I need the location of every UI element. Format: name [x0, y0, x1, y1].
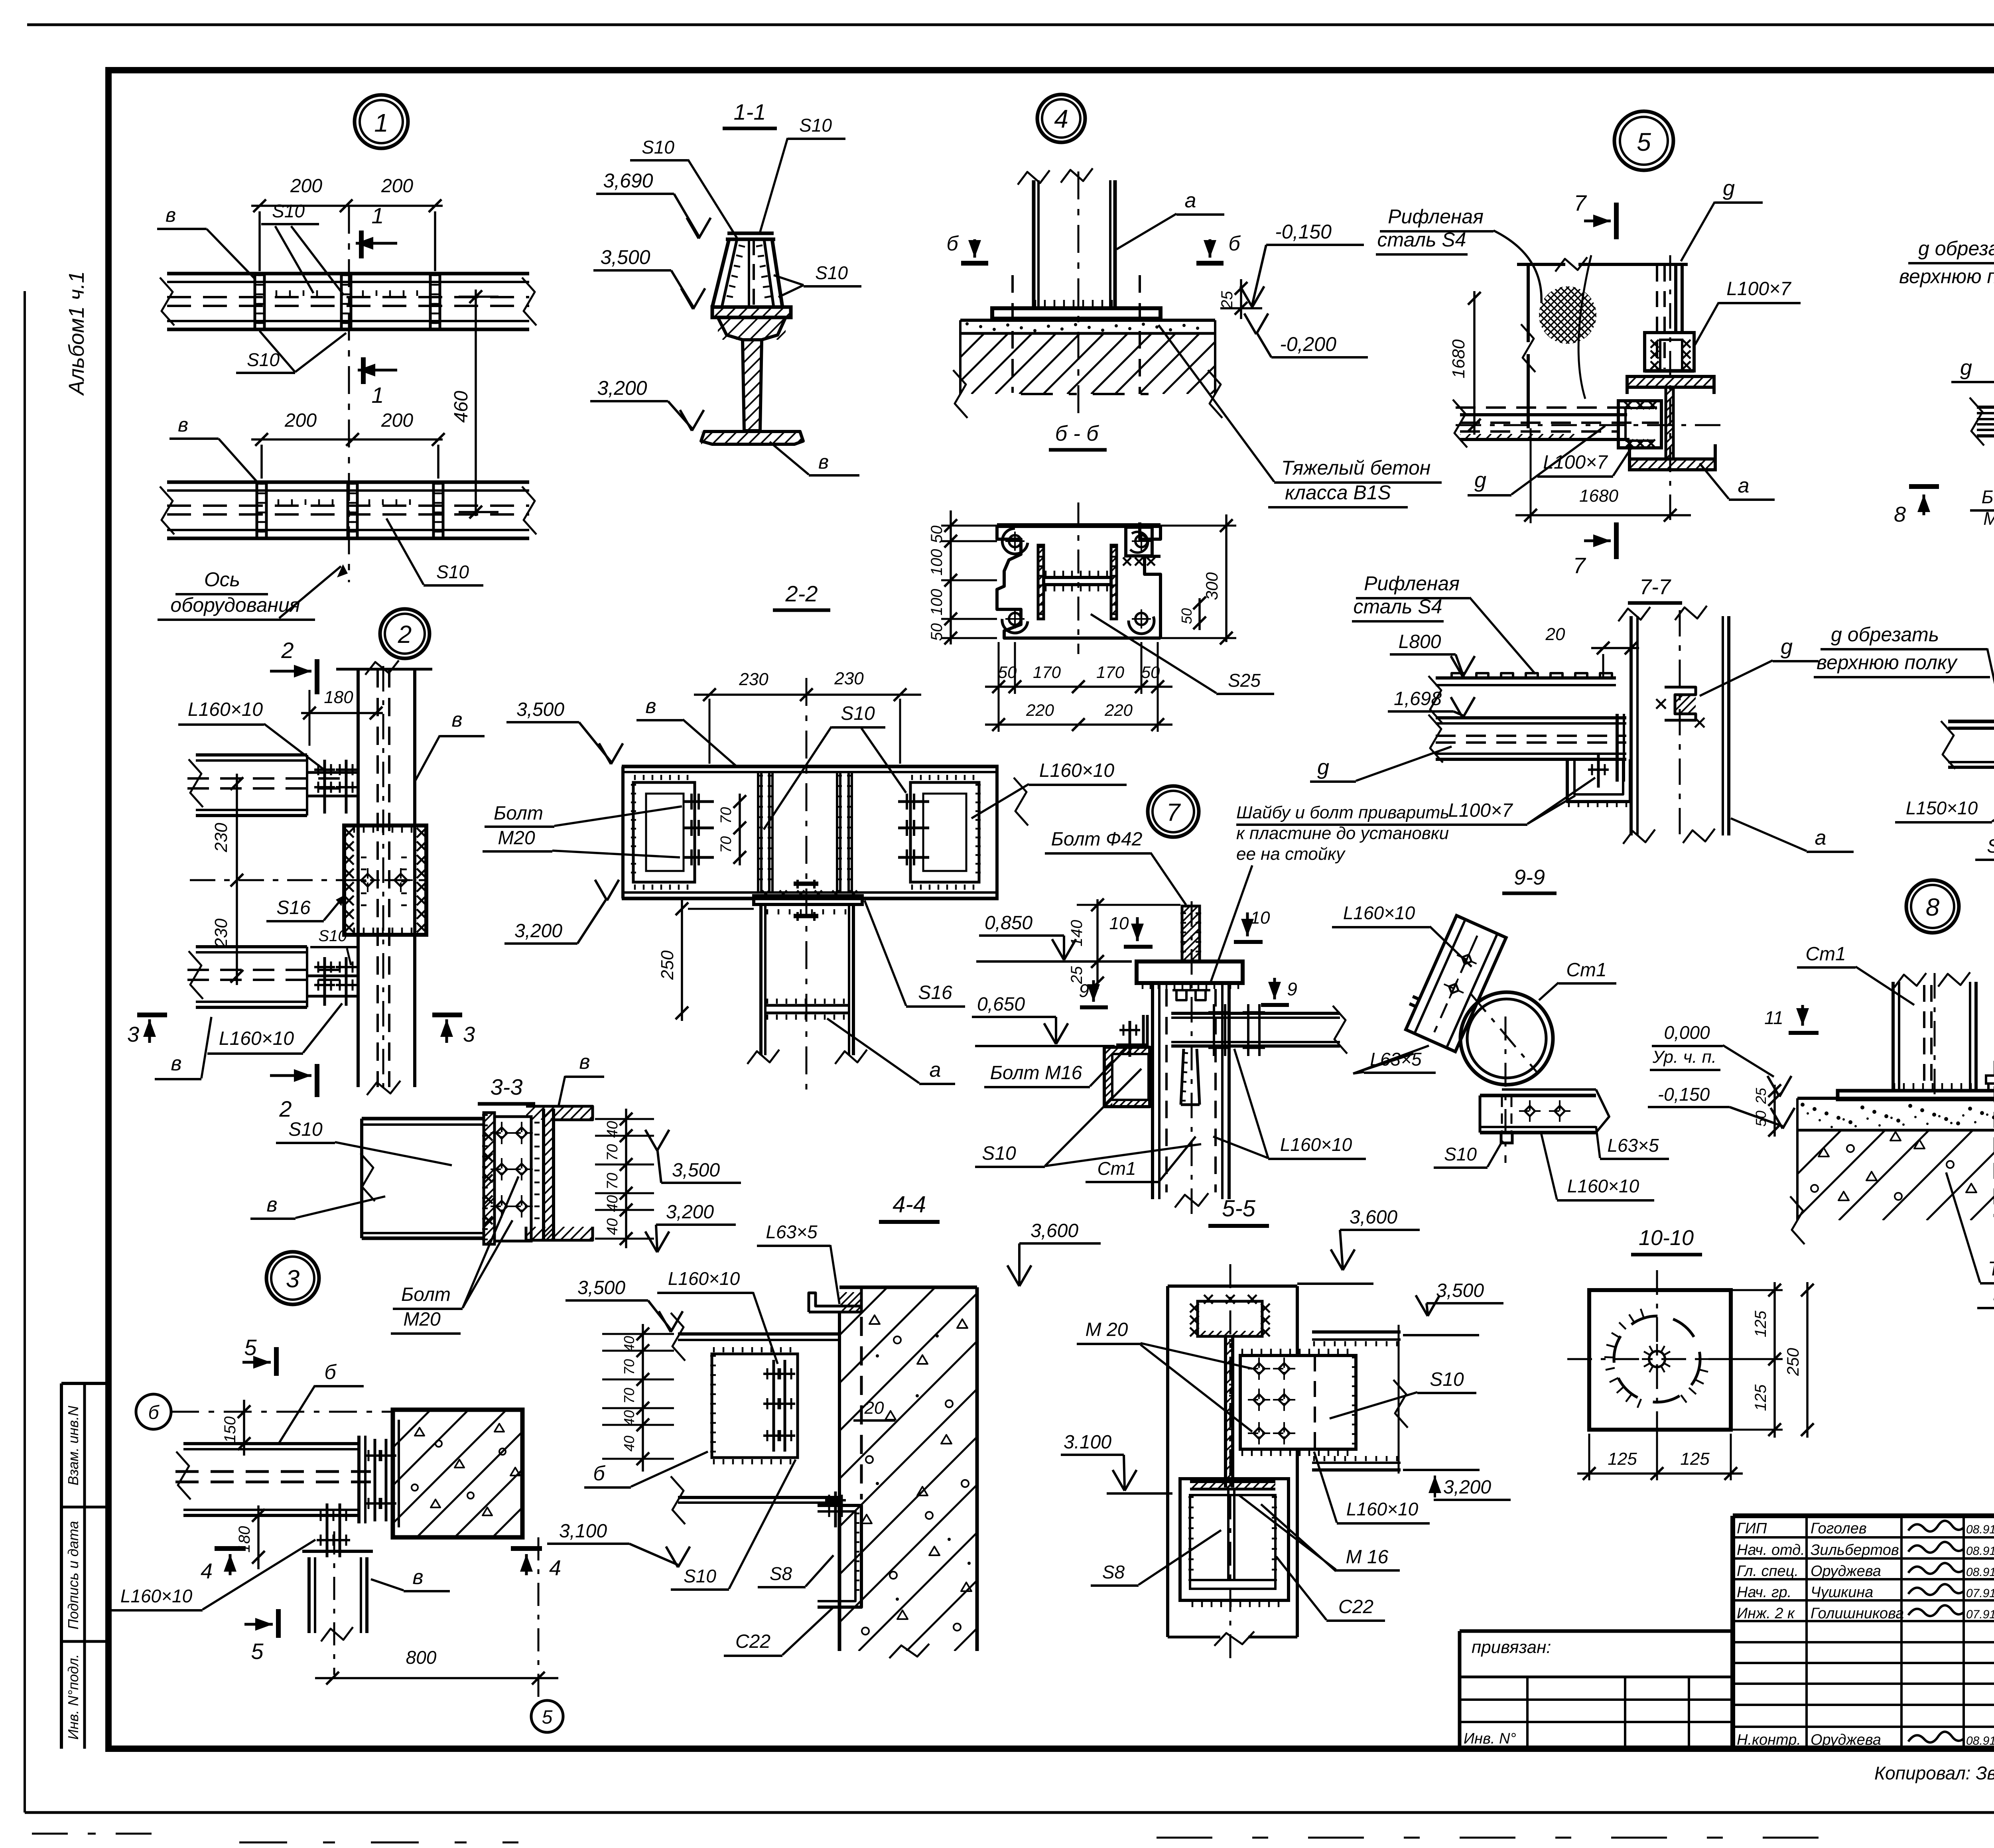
section 2-2 right plate bolts — [898, 800, 929, 803]
svg-text:10: 10 — [1109, 914, 1129, 933]
svg-text:а: а — [1815, 826, 1827, 849]
svg-text:g обрезать: g обрезать — [1918, 237, 1994, 260]
svg-text:М 20: М 20 — [1086, 1319, 1128, 1340]
uzel 7 top plate — [1137, 961, 1243, 983]
svg-text:-0,150: -0,150 — [1275, 221, 1332, 243]
section 1-1 funnel — [712, 239, 729, 307]
svg-text:Инв. N°: Инв. N° — [1464, 1730, 1516, 1747]
section 9-9 clamp plate — [1502, 1088, 1596, 1091]
svg-text:S8: S8 — [1102, 1562, 1125, 1582]
section 2-2 center stiffeners — [757, 772, 759, 892]
svg-text:Копировал: Зверева ЗЛ.: Копировал: Зверева ЗЛ. — [1874, 1763, 1994, 1783]
svg-text:1680: 1680 — [1449, 339, 1468, 378]
svg-text:220: 220 — [1104, 701, 1133, 719]
svg-text:L160×10: L160×10 — [1346, 1499, 1419, 1519]
uzel 2 section flag 3 right — [432, 1013, 462, 1017]
svg-text:S10: S10 — [436, 561, 469, 582]
svg-text:3-3: 3-3 — [491, 1074, 523, 1099]
svg-text:S10: S10 — [1430, 1369, 1464, 1390]
svg-text:3: 3 — [127, 1023, 139, 1046]
uzel 5 dim 1680 left — [1473, 291, 1476, 435]
uzel 5 plan left edge — [1527, 264, 1530, 342]
section 4-4 upper beam line — [678, 1332, 839, 1336]
svg-text:L150×10: L150×10 — [1906, 798, 1978, 818]
svg-text:б: б — [593, 1462, 605, 1485]
uzel 2 section flag 2 top — [315, 659, 319, 694]
svg-text:3,200: 3,200 — [514, 920, 562, 942]
svg-text:Ст1: Ст1 — [1805, 944, 1846, 965]
svg-text:а: а — [1185, 189, 1196, 212]
svg-text:а: а — [930, 1058, 941, 1082]
svg-text:40: 40 — [604, 1218, 621, 1235]
svg-text:125: 125 — [1752, 1310, 1769, 1337]
svg-text:150: 150 — [221, 1417, 239, 1443]
svg-text:230: 230 — [211, 823, 231, 853]
svg-text:б: б — [1228, 232, 1241, 255]
svg-text:40: 40 — [621, 1336, 637, 1352]
section 1-1 rail web — [743, 340, 762, 431]
svg-text:в: в — [171, 1052, 181, 1075]
svg-text:L100×7: L100×7 — [1543, 452, 1608, 473]
section 7-7 column — [1629, 616, 1633, 835]
uzel 3 grid bubble b — [136, 1394, 171, 1429]
svg-text:Рифленая: Рифленая — [1364, 572, 1460, 595]
attachment box privyazan — [1460, 1629, 1733, 1633]
uzel 2 section flag 3 left — [137, 1013, 167, 1017]
svg-text:L100×7: L100×7 — [1726, 278, 1792, 299]
plate plan center flange bars — [1038, 545, 1044, 619]
uzel 1 equipment axis line — [348, 206, 350, 582]
svg-text:в: в — [266, 1193, 277, 1216]
svg-text:Болт: Болт — [1982, 487, 1994, 507]
svg-text:5: 5 — [1637, 128, 1651, 156]
svg-text:3,500: 3,500 — [577, 1277, 625, 1298]
svg-text:Инж. 2 к: Инж. 2 к — [1737, 1605, 1795, 1622]
svg-text:140: 140 — [1068, 920, 1086, 947]
svg-text:Подпись и дата: Подпись и дата — [65, 1521, 81, 1629]
svg-text:2: 2 — [398, 621, 412, 648]
section 5-5 beam web — [1224, 1336, 1227, 1487]
svg-text:7: 7 — [1166, 799, 1181, 826]
svg-text:3,600: 3,600 — [1030, 1220, 1078, 1241]
svg-text:привязан:: привязан: — [1472, 1637, 1551, 1657]
svg-text:8: 8 — [1926, 894, 1940, 921]
svg-text:L800: L800 — [1399, 631, 1441, 652]
svg-text:70: 70 — [604, 1144, 621, 1161]
svg-text:460: 460 — [451, 391, 472, 423]
svg-text:в: в — [166, 204, 176, 226]
uzel 4 section flag b right — [1196, 261, 1224, 266]
page bottom trim line — [25, 1811, 1994, 1814]
svg-text:25: 25 — [1753, 1088, 1769, 1104]
uzel 3 lower bolts — [326, 1503, 329, 1557]
svg-text:Инв. N°подл.: Инв. N°подл. — [65, 1654, 81, 1740]
svg-text:250: 250 — [1783, 1348, 1802, 1376]
uzel 7 dim 140 25 — [1096, 899, 1099, 989]
svg-text:20: 20 — [864, 1398, 884, 1418]
uzel 4 base plate — [992, 308, 1161, 319]
svg-text:40: 40 — [621, 1436, 637, 1452]
section 2-2 dims 230 230 — [694, 693, 921, 696]
section 7-7 z bracket — [1665, 687, 1696, 720]
svg-text:230: 230 — [834, 669, 864, 688]
uzel 3 dim 800 — [315, 1677, 558, 1679]
svg-text:2-2: 2-2 — [785, 581, 818, 606]
uzel 8 anchor bolt — [1986, 1076, 1994, 1084]
uzel 1 lower beam — [167, 481, 529, 484]
svg-text:1: 1 — [371, 382, 384, 408]
svg-text:L160×10: L160×10 — [1343, 902, 1415, 923]
svg-text:S10: S10 — [247, 349, 280, 370]
svg-text:S10: S10 — [982, 1143, 1016, 1164]
section 4-4 channel — [818, 1505, 861, 1607]
section 5-5 right beam — [1312, 1330, 1401, 1334]
svg-text:9: 9 — [1079, 980, 1089, 1001]
svg-text:40: 40 — [604, 1121, 621, 1138]
section 10-10 right dims 125 125 — [1773, 1282, 1776, 1438]
svg-text:180: 180 — [324, 688, 353, 707]
uzel 1 upper beam — [167, 272, 529, 276]
svg-text:S10: S10 — [288, 1119, 323, 1140]
svg-text:7: 7 — [1574, 190, 1587, 215]
section 2-2 dims 70 70 — [739, 794, 741, 865]
section 5-5 channel box — [1180, 1479, 1289, 1600]
svg-text:g: g — [1474, 468, 1486, 492]
svg-text:С22: С22 — [735, 1631, 770, 1652]
section 2-2 left angle plate — [633, 782, 695, 882]
uzel 7 side beam right — [1171, 1012, 1340, 1015]
plate plan outline — [997, 523, 1161, 528]
section 4-4 top angle — [809, 1293, 861, 1312]
svg-text:g обрезать: g обрезать — [1831, 623, 1939, 646]
uzel 3 dim 180 — [257, 1505, 260, 1569]
page top trim line — [27, 24, 1994, 26]
svg-text:S16: S16 — [276, 897, 311, 918]
svg-text:40: 40 — [604, 1195, 621, 1212]
svg-text:Чушкина: Чушкина — [1811, 1584, 1873, 1601]
svg-text:Ст1: Ст1 — [1097, 1158, 1136, 1179]
svg-text:g: g — [1723, 176, 1735, 200]
svg-text:S10: S10 — [642, 137, 674, 158]
svg-text:2: 2 — [279, 1096, 292, 1121]
svg-text:Ур. ч. п.: Ур. ч. п. — [1652, 1047, 1716, 1067]
svg-text:70: 70 — [621, 1388, 637, 1404]
svg-text:S10: S10 — [1444, 1144, 1477, 1164]
svg-text:Тяжелый бетон: Тяжелый бетон — [1988, 1257, 1994, 1280]
svg-text:200: 200 — [381, 175, 413, 197]
uzel 7 marker circle — [1148, 786, 1199, 837]
uzel 5 upper clamp L100x7 — [1645, 333, 1694, 371]
section 2-2 axis bolts — [794, 882, 818, 886]
uzel 1 lower beam dimension 200 200 — [251, 438, 443, 441]
svg-text:3,500: 3,500 — [672, 1160, 720, 1181]
svg-text:Зильбертов: Зильбертов — [1811, 1542, 1899, 1558]
svg-text:С22: С22 — [1338, 1596, 1373, 1617]
svg-text:3,200: 3,200 — [1443, 1477, 1491, 1498]
svg-text:100: 100 — [928, 549, 946, 576]
svg-text:08.91: 08.91 — [1966, 1523, 1994, 1536]
svg-text:3,500: 3,500 — [600, 246, 650, 268]
svg-text:в: в — [178, 414, 188, 436]
section 1-1 bottom flange — [701, 431, 803, 444]
section 2-2 dim 250 — [681, 899, 683, 1021]
svg-text:5-5: 5-5 — [1222, 1196, 1256, 1221]
svg-text:в: в — [579, 1050, 590, 1074]
section 5-5 axis — [1230, 1264, 1231, 1667]
section 2-2 lower column — [759, 904, 763, 1055]
svg-text:200: 200 — [381, 410, 413, 431]
uzel 4 marker circle — [1037, 95, 1085, 142]
svg-text:3,100: 3,100 — [559, 1521, 607, 1542]
uzel 8 column — [1892, 982, 1895, 1091]
svg-text:L160×10: L160×10 — [1280, 1134, 1352, 1155]
svg-text:ее на стойку: ее на стойку — [1236, 844, 1346, 864]
section 4-4 lower beam line — [678, 1496, 839, 1499]
uzel 3 end plate and bolts — [357, 1436, 361, 1523]
section 8-8 beam — [1948, 720, 1994, 723]
svg-text:1,698: 1,698 — [1394, 688, 1442, 709]
uzel 5 lower clamp L100x7 — [1618, 401, 1661, 448]
uzel 1 upper beam dimension 200 200 — [251, 205, 443, 207]
uzel 3 grid bubble 5 — [531, 1700, 563, 1732]
svg-text:S10: S10 — [684, 1566, 716, 1586]
svg-text:g: g — [1317, 755, 1329, 779]
svg-text:Альбом1 ч.1: Альбом1 ч.1 — [65, 271, 89, 396]
svg-text:в: в — [412, 1566, 423, 1589]
section 9-9 pipe saddle stub — [1501, 1133, 1512, 1143]
uzel 1 section flag 1 upper — [359, 231, 364, 258]
svg-text:25: 25 — [1218, 291, 1236, 309]
svg-text:08.91: 08.91 — [1966, 1734, 1994, 1748]
svg-text:3,200: 3,200 — [597, 377, 647, 399]
svg-text:М20: М20 — [498, 827, 535, 849]
svg-text:а: а — [1738, 474, 1750, 497]
uzel 7 anchor bolt rod — [1182, 906, 1200, 961]
svg-text:Гоголев: Гоголев — [1811, 1520, 1867, 1537]
title block staff table — [1730, 1516, 1735, 1749]
svg-text:S10: S10 — [318, 927, 347, 945]
svg-text:7-7: 7-7 — [1639, 575, 1671, 599]
uzel 2 lower connection bolts — [307, 975, 358, 977]
svg-text:11: 11 — [1764, 1007, 1783, 1028]
svg-text:3.100: 3.100 — [1064, 1432, 1111, 1453]
uzel 7 left channel — [1104, 1047, 1150, 1107]
section 4-4 left dim stack — [642, 1324, 644, 1472]
uzel 5 column hidden lines — [1656, 266, 1658, 369]
svg-text:3: 3 — [463, 1023, 475, 1046]
svg-text:Голишникова: Голишникова — [1811, 1605, 1904, 1622]
svg-text:9-9: 9-9 — [1514, 865, 1545, 889]
plate plan right small dim 50 — [1198, 598, 1201, 630]
svg-text:g: g — [1960, 356, 1972, 380]
svg-text:07.91: 07.91 — [1966, 1587, 1994, 1600]
uzel 2 gusset small marks — [361, 857, 366, 859]
uzel 3 section flag 5 bottom — [276, 1609, 281, 1638]
uzel 4 column shafts — [1032, 180, 1036, 308]
svg-text:Болт Ф42: Болт Ф42 — [1051, 829, 1143, 850]
svg-text:125: 125 — [1680, 1449, 1710, 1469]
uzel 8 dims 25 50 — [1773, 1085, 1776, 1137]
svg-text:ГИП: ГИП — [1737, 1520, 1767, 1537]
section 10-10 center hub — [1649, 1351, 1665, 1367]
uzel 1 section flag 1 lower — [361, 357, 366, 384]
svg-text:Ст1: Ст1 — [1566, 959, 1606, 981]
svg-text:Болт: Болт — [494, 803, 543, 824]
section 2-2 axis — [806, 678, 808, 1091]
svg-text:М 16: М 16 — [1346, 1547, 1389, 1568]
svg-text:70: 70 — [718, 836, 735, 853]
svg-text:125: 125 — [1752, 1384, 1769, 1411]
svg-text:Нач. отд.: Нач. отд. — [1737, 1542, 1805, 1558]
uzel 4 concrete surface — [960, 319, 1215, 322]
section 2-2 right angle plate — [910, 782, 979, 882]
uzel 5 axes — [1456, 424, 1727, 426]
uzel 4 section flag b left — [961, 261, 988, 266]
svg-text:Рифленая: Рифленая — [1388, 205, 1484, 228]
svg-text:70: 70 — [718, 807, 735, 824]
svg-text:в: в — [645, 695, 656, 718]
uzel 3 embed plate — [391, 1420, 395, 1527]
section 7-7 hanging channel — [1567, 759, 1630, 802]
svg-text:170: 170 — [1033, 663, 1061, 682]
svg-text:100: 100 — [928, 589, 946, 616]
svg-text:220: 220 — [1026, 701, 1054, 719]
page bottom trim dashes — [32, 1833, 156, 1835]
svg-text:g: g — [1781, 635, 1793, 659]
svg-text:9: 9 — [1287, 979, 1297, 999]
uzel 5 section flag 7 top — [1614, 203, 1619, 239]
uzel 6 beams from left — [1977, 406, 1994, 409]
section 5-5 bottom tee flange — [1190, 1480, 1275, 1483]
section 2-2 left plate bolts — [683, 800, 714, 803]
section 5-5 plate with bolts — [1240, 1355, 1356, 1449]
section 2-2 bottom plate — [754, 896, 862, 904]
svg-text:3,200: 3,200 — [666, 1202, 714, 1223]
svg-text:800: 800 — [406, 1647, 437, 1668]
uzel 7 pipe lower flare — [1181, 1049, 1184, 1105]
section 7-7 end connection — [1616, 714, 1619, 782]
uzel 2 gusset plate S16 — [344, 825, 426, 935]
uzel 5 column web — [1666, 387, 1673, 459]
uzel 2 section flag 2 bottom — [315, 1064, 319, 1097]
svg-text:Н.контр.: Н.контр. — [1737, 1732, 1801, 1748]
plate plan bottom dims 220 220 — [985, 723, 1172, 726]
svg-text:верхнюю полку: верхнюю полку — [1817, 651, 1958, 674]
svg-text:2: 2 — [281, 638, 294, 663]
plate plan center web bar — [1044, 577, 1111, 585]
svg-text:230: 230 — [739, 670, 768, 689]
svg-text:3,500: 3,500 — [1436, 1280, 1484, 1301]
svg-text:8: 8 — [1894, 502, 1906, 526]
uzel 1 marker circle — [355, 95, 408, 148]
svg-text:1: 1 — [374, 108, 388, 137]
uzel 7 left angle bracket — [1142, 1015, 1145, 1046]
uzel 3 column below — [302, 1550, 373, 1553]
svg-text:S16: S16 — [1987, 836, 1994, 857]
section 3-3 bolt plate — [495, 1117, 531, 1241]
svg-text:07.91: 07.91 — [1966, 1608, 1994, 1621]
svg-text:б: б — [324, 1361, 337, 1384]
page left trim line — [24, 291, 26, 1813]
svg-text:в: в — [818, 451, 829, 473]
svg-text:верхнюю полку: верхнюю полку — [1899, 265, 1994, 288]
svg-text:125: 125 — [1608, 1449, 1637, 1469]
section 2-2 column battens — [765, 1004, 849, 1007]
svg-text:3,500: 3,500 — [516, 699, 564, 720]
svg-text:-0,200: -0,200 — [1280, 333, 1336, 355]
uzel 3 section flag 4 left — [215, 1546, 246, 1551]
section 7-7 beam — [1436, 716, 1626, 719]
uzel 8 concrete screed — [1797, 1097, 1994, 1100]
section 1-1 base plate — [712, 307, 791, 317]
uzel 3 section flag 4 right — [511, 1546, 542, 1551]
section 10-10 plate — [1589, 1290, 1731, 1430]
section 10-10 axis lines — [1567, 1358, 1771, 1360]
svg-text:200: 200 — [290, 175, 322, 197]
plate plan bottom dims 50 170 170 50 — [985, 686, 1172, 688]
plate plan right dim 300 — [1225, 514, 1228, 642]
svg-text:08.91: 08.91 — [1966, 1566, 1994, 1579]
section 3-3 right dim stack — [625, 1109, 627, 1248]
uzel 5 dim 1680 bottom — [1515, 514, 1691, 516]
svg-text:L160×10: L160×10 — [120, 1586, 193, 1606]
svg-text:0,000: 0,000 — [1664, 1022, 1710, 1043]
svg-text:230: 230 — [211, 918, 231, 948]
uzel 3 beam — [183, 1442, 359, 1445]
section 10-10 right dim 250 — [1806, 1282, 1809, 1438]
uzel 5 plan top edge — [1517, 263, 1565, 266]
svg-text:Оруджева: Оруджева — [1811, 1563, 1881, 1580]
svg-text:5: 5 — [542, 1707, 553, 1728]
uzel 5 section flag 7 bottom — [1614, 522, 1619, 559]
uzel 7 washer under plate — [1142, 984, 1144, 989]
svg-text:L63×5: L63×5 — [766, 1221, 818, 1242]
section 2-2 top beam — [622, 765, 999, 768]
svg-text:L63×5: L63×5 — [1607, 1135, 1659, 1156]
section 5-5 top bracket — [1198, 1301, 1262, 1336]
svg-text:L100×7: L100×7 — [1448, 800, 1513, 821]
plate plan left dims 50 100 100 50 — [950, 510, 952, 644]
uzel 5 marker circle — [1614, 111, 1673, 170]
plate plan top right clamp — [1126, 527, 1152, 556]
svg-text:10-10: 10-10 — [1639, 1226, 1694, 1250]
uzel 4 column axis — [1078, 171, 1080, 423]
svg-text:170: 170 — [1096, 663, 1125, 682]
uzel 2 marker circle — [380, 609, 430, 658]
section 10-10 dashed circle with ticks — [1614, 1316, 1700, 1402]
uzel 8 baseplate — [1838, 1091, 1994, 1099]
uzel 2 dim 180 — [301, 712, 383, 714]
svg-text:50: 50 — [1753, 1111, 1769, 1127]
svg-text:40: 40 — [621, 1410, 637, 1426]
svg-text:5: 5 — [244, 1335, 257, 1360]
svg-text:Болт М16: Болт М16 — [990, 1062, 1082, 1084]
plate plan corner clip arcs — [1002, 528, 1028, 554]
svg-text:Взам. инв.N: Взам. инв.N — [65, 1405, 81, 1485]
svg-text:L160×10: L160×10 — [668, 1268, 740, 1289]
svg-text:S25: S25 — [1228, 670, 1261, 691]
uzel 2 upper connection bolts — [307, 771, 358, 774]
uzel 6 section flag 8 left — [1909, 484, 1939, 489]
svg-text:б: б — [946, 232, 959, 255]
section 4-4 wall — [839, 1286, 977, 1289]
svg-text:Гл. спец.: Гл. спец. — [1737, 1563, 1799, 1580]
svg-text:L160×10: L160×10 — [188, 699, 263, 720]
section 3-3 channel top — [362, 1117, 483, 1121]
section 5-5 wall outline — [1168, 1285, 1297, 1288]
section 9-9 diagonal brace — [1399, 913, 1506, 1052]
uzel 2 column — [357, 669, 360, 1087]
